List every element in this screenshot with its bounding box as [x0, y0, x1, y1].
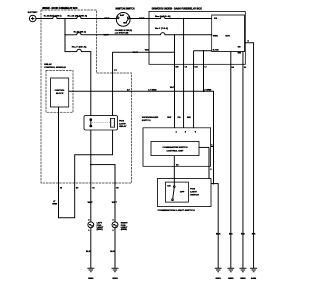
- svg-text:No.42 (40 A/50 A): No.42 (40 A/50 A): [68, 15, 88, 18]
- node J2: [64, 34, 66, 36]
- svg-text:LT GRN: LT GRN: [203, 89, 211, 91]
- fuse No.15 (40 A): [74, 30, 86, 34]
- svg-text:H1: H1: [244, 67, 246, 69]
- wire fuse No.7 to fog light relay contact: [85, 52, 91, 116]
- right fog light: [112, 220, 128, 233]
- fuse No.7 (15 A) under-hood: [72, 46, 87, 52]
- svg-text:WBU: WBU: [213, 35, 219, 37]
- svg-text:No.2 (10 A): No.2 (10 A): [155, 15, 171, 18]
- svg-text:WHT: WHT: [139, 18, 145, 20]
- svg-text:WHT: WHT: [104, 35, 110, 37]
- svg-text:WHT: WHT: [112, 202, 118, 204]
- wiper/washer switch label: [142, 116, 159, 122]
- combination switch control unit: [151, 142, 199, 156]
- wire pin X stub to ground G401: [245, 41, 253, 269]
- svg-text:D9: D9: [116, 188, 118, 190]
- svg-text:BLOCK: BLOCK: [56, 93, 64, 95]
- wire LT GRN jumper loop pin A9 to pin B9: [52, 183, 74, 218]
- wire pin C9 column: [183, 19, 185, 128]
- wire internal pin G10 to pin X26 column: [149, 51, 175, 53]
- svg-text:CONTROL: CONTROL: [55, 90, 66, 92]
- svg-text:H9: H9: [232, 67, 234, 69]
- combination light switch box: [158, 179, 212, 213]
- svg-text:BLK: BLK: [86, 251, 91, 253]
- fuse No.22 BAT (100 A): [44, 15, 62, 19]
- node J1: [64, 18, 66, 20]
- wire fuse No.7 under-dash to relay block: [168, 34, 212, 36]
- wire WHT under-dash pin G10 to fog light relay coil via pin C7: [113, 52, 149, 116]
- fuse No.2 (10 A) under-dash: [155, 15, 171, 19]
- fuse No.42 (40/50 A): [68, 15, 88, 19]
- svg-text:GRN: GRN: [52, 204, 57, 206]
- svg-text:DRIVER'S UNDER - DASH FUSE/REL: DRIVER'S UNDER - DASH FUSE/RELAY BOX: [152, 7, 202, 10]
- svg-text:G201: G201: [88, 278, 94, 280]
- node J4: [174, 34, 176, 36]
- wire BLK right fog light to ground G202: [110, 228, 115, 269]
- svg-text:B-CM: B-CM: [213, 50, 219, 52]
- wire WHT pin D9 to right fog light: [112, 183, 118, 222]
- wire WHT fuse No.15 to under-dash fuse No.7: [84, 35, 158, 37]
- svg-text:ON: ON: [167, 185, 171, 187]
- wire BLK combination light switch pin 2 to ground G501: [211, 183, 221, 268]
- svg-text:FOG: FOG: [190, 189, 195, 191]
- svg-text:G503: G503: [240, 278, 246, 280]
- ground G201: [87, 268, 94, 280]
- wire fuse No.22 to fuse No.42: [60, 18, 75, 20]
- svg-text:G501: G501: [216, 278, 222, 280]
- svg-text:(55W): (55W): [121, 229, 127, 231]
- wire battery to fuse No.22: [36, 18, 50, 20]
- svg-text:BATTERY: BATTERY: [28, 11, 38, 14]
- relay control module: [44, 63, 73, 112]
- node J6: [174, 52, 176, 54]
- wire control block to pin A9: [58, 107, 60, 183]
- svg-text:CONTROL UNIT: CONTROL UNIT: [167, 150, 185, 152]
- svg-text:G401: G401: [251, 277, 257, 280]
- svg-text:C9: C9: [185, 67, 187, 69]
- wire BLK left fog light to ground G201: [86, 228, 91, 269]
- fog light relay: [84, 116, 127, 130]
- svg-text:LIGHT: LIGHT: [119, 123, 126, 125]
- wire fuse No.2 to relay block: [168, 18, 212, 20]
- ignition switch SW1: [115, 7, 135, 34]
- svg-text:No.22 (BAT) (100 A): No.22 (BAT) (100 A): [44, 15, 62, 18]
- svg-text:B9: B9: [76, 188, 78, 190]
- svg-text:D11: D11: [195, 67, 198, 69]
- svg-text:SWITCH: SWITCH: [142, 120, 151, 122]
- wire pin D11 column to combination switch: [193, 51, 195, 128]
- wire WHT pin C9b to left fog light: [88, 183, 94, 222]
- wire control unit to fog light switch: [173, 156, 175, 186]
- wire J2 down to fuse No.7 under-hood: [65, 35, 74, 52]
- svg-text:WHT: WHT: [104, 18, 110, 20]
- node J5: [203, 50, 205, 52]
- svg-text:G202: G202: [112, 278, 118, 280]
- fog light switch: [165, 182, 199, 202]
- combination switch box: [143, 128, 211, 167]
- svg-text:X26: X26: [175, 67, 178, 69]
- svg-text:BLK: BLK: [110, 251, 115, 253]
- wire bus J1 down: [64, 19, 66, 52]
- svg-text:C7: C7: [204, 67, 206, 69]
- svg-text:RELAY: RELAY: [119, 125, 127, 128]
- fuse No.7 (7.5 A) under-dash: [155, 27, 168, 35]
- svg-text:BLK: BLK: [216, 233, 221, 235]
- svg-text:RELAY: RELAY: [44, 63, 52, 66]
- wire BLK labels for right ground wires: [229, 233, 256, 235]
- control block: [51, 78, 69, 107]
- svg-text:COMBINATION SWITCH: COMBINATION SWITCH: [163, 146, 188, 149]
- wire WHT ignition switch to under-dash box: [130, 18, 158, 20]
- left fog light: [88, 220, 104, 233]
- battery B1: [28, 11, 38, 22]
- svg-text:WHT: WHT: [133, 52, 139, 54]
- wire relay block to pin C7 under-dash: [203, 51, 205, 92]
- wire control unit to combination light switch right feed: [199, 147, 209, 178]
- wire relay block pin H1 to ground G503: [242, 52, 244, 269]
- svg-text:COMBINATION LIGHT SWITCH: COMBINATION LIGHT SWITCH: [158, 209, 196, 212]
- wire branch to pin D9: [91, 165, 115, 183]
- wire LT GRN control block to combination switch pin 1: [69, 88, 214, 183]
- ground G502: [227, 268, 234, 280]
- node J7: [203, 91, 205, 93]
- relay block U2 inside under-dash box: [212, 15, 245, 55]
- svg-text:IGNITION SWITCH: IGNITION SWITCH: [116, 7, 135, 10]
- wire J2 to fuse No.15: [65, 34, 74, 36]
- svg-text:G502: G502: [228, 278, 234, 280]
- ground G401: [250, 268, 257, 280]
- node J3: [183, 18, 185, 20]
- wire fog light relay coil to pin B9: [75, 130, 113, 183]
- wire WHT fuse No.42 to ignition switch BAT: [84, 18, 117, 20]
- svg-text:WIPER/WASHER: WIPER/WASHER: [142, 116, 159, 119]
- svg-text:and START (III): and START (III): [115, 32, 129, 35]
- under-hood fuse/relay box: [41, 7, 132, 183]
- svg-text:BAT: BAT: [120, 14, 125, 17]
- wire color labels above combination switch: [167, 117, 191, 119]
- svg-text:LT GRN: LT GRN: [148, 89, 156, 91]
- svg-text:FOG: FOG: [119, 121, 124, 123]
- svg-text:WHT: WHT: [88, 202, 94, 204]
- node J8: [90, 164, 92, 166]
- svg-text:(55W): (55W): [97, 229, 103, 231]
- under-hood bottom pin labels: [60, 187, 119, 190]
- svg-text:CLOSED IN ON (II): CLOSED IN ON (II): [115, 30, 132, 32]
- ground G501: [215, 268, 222, 280]
- svg-text:No.15 (40 A): No.15 (40 A): [74, 30, 86, 33]
- svg-text:No.7 (15 A): No.7 (15 A): [72, 46, 87, 49]
- wire relay block stub to pin D11: [194, 50, 212, 52]
- svg-text:OFF: OFF: [180, 191, 185, 193]
- svg-text:UNDER - HOOD FUSE/RELAY BOX: UNDER - HOOD FUSE/RELAY BOX: [42, 7, 78, 10]
- svg-text:LIGHT: LIGHT: [190, 192, 197, 194]
- svg-text:SWITCH: SWITCH: [190, 194, 199, 196]
- ground G503: [239, 268, 246, 280]
- svg-text:A9: A9: [60, 187, 62, 190]
- wire relay block pin H9 to ground G502: [230, 52, 232, 269]
- wire fog light relay contact to pin C9b: [90, 130, 92, 183]
- wire pin X26 column: [174, 35, 176, 128]
- under-dash bottom pin labels: [175, 67, 246, 69]
- svg-text:M7U: M7U: [225, 35, 230, 37]
- svg-text:CONTROL MODULE: CONTROL MODULE: [44, 67, 66, 69]
- svg-text:No.7 (7.5 A): No.7 (7.5 A): [155, 27, 168, 30]
- driver's under-dash fuse/relay box: [149, 7, 245, 64]
- svg-text:C9: C9: [92, 188, 94, 190]
- ground G202: [112, 268, 119, 280]
